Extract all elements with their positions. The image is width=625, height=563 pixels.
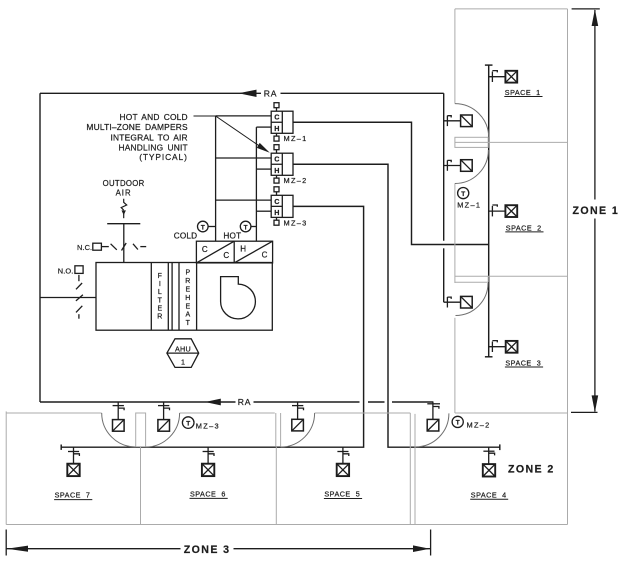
svg-text:SPACE 2: SPACE 2 — [506, 223, 542, 232]
svg-text:E: E — [157, 305, 162, 312]
svg-text:R: R — [185, 278, 190, 285]
diffuser space 6 — [202, 464, 214, 476]
svg-text:T: T — [456, 420, 460, 427]
duct RA bottom line — [40, 401, 433, 403]
svg-text:T: T — [201, 224, 205, 231]
duct zone 2 from MZ-2 — [293, 164, 500, 450]
svg-text:SPACE 5: SPACE 5 — [324, 490, 360, 499]
damper MZ-1 — [271, 103, 293, 141]
svg-text:H: H — [274, 124, 279, 133]
diffuser space 4 — [483, 464, 495, 476]
svg-text:T: T — [244, 224, 248, 231]
svg-text:INTEGRAL TO AIR: INTEGRAL TO AIR — [111, 132, 188, 142]
svg-text:C: C — [262, 251, 268, 260]
svg-text:C: C — [202, 245, 208, 254]
svg-text:T: T — [158, 297, 163, 304]
damper N.C. outdoor air — [93, 243, 146, 251]
thermostat T MZ-2 — [452, 416, 463, 427]
svg-text:C: C — [223, 251, 229, 260]
outdoor air intake line — [107, 223, 140, 225]
door arc space 1 — [455, 104, 489, 138]
thermostat T MZ-3 — [182, 417, 194, 429]
svg-text:N.C.: N.C. — [77, 243, 92, 252]
diffuser space 3 — [506, 341, 518, 353]
svg-text:E: E — [185, 303, 190, 310]
outdoor air flow arrow with break — [121, 199, 127, 218]
labels coil letters — [202, 245, 268, 260]
leader line — [194, 116, 263, 148]
svg-text:(TYPICAL): (TYPICAL) — [139, 152, 188, 162]
svg-text:P: P — [185, 270, 190, 277]
duct zone 3 from MZ-3 — [61, 206, 363, 450]
thermostat T cold deck — [198, 221, 216, 232]
duct RA vertical drop — [443, 93, 445, 302]
label FILTER — [157, 273, 162, 321]
register return corridor 2 — [461, 160, 473, 172]
duct mixed air line — [40, 297, 96, 299]
svg-text:N.O.: N.O. — [58, 266, 74, 275]
fan scroll — [221, 277, 256, 319]
svg-text:SPACE 4: SPACE 4 — [471, 490, 507, 499]
dimension ZONE 1 — [571, 9, 600, 413]
duct RA top line — [40, 92, 444, 94]
svg-text:T: T — [186, 320, 191, 327]
diffuser space 2 — [505, 205, 517, 217]
door arc space 3 — [456, 283, 489, 316]
register corridor bottom 3 — [292, 419, 304, 431]
door arc left double door — [102, 413, 136, 447]
svg-text:H: H — [240, 245, 246, 254]
svg-text:SPACE 3: SPACE 3 — [505, 358, 541, 367]
svg-text:H: H — [185, 295, 190, 302]
coil section hot/cold decks — [196, 241, 272, 263]
walls bottom rooms — [6, 411, 567, 524]
register return corridor 3 — [461, 296, 473, 308]
diffuser space 5 — [337, 464, 349, 476]
register corridor bottom 4 — [427, 419, 439, 431]
svg-text:RA: RA — [238, 397, 252, 407]
duct outdoor air vertical — [123, 224, 125, 263]
label PREHEAT — [185, 270, 190, 327]
AHU U1 casing — [96, 263, 272, 331]
diffuser space 1 — [505, 71, 517, 83]
svg-text:C: C — [274, 113, 279, 122]
svg-text:MZ–2: MZ–2 — [467, 420, 491, 429]
svg-text:RA: RA — [264, 89, 278, 99]
svg-text:ZONE 2: ZONE 2 — [508, 463, 555, 475]
svg-text:L: L — [158, 289, 162, 296]
register return corridor 1 — [461, 115, 473, 127]
damper MZ-3 — [271, 187, 293, 225]
svg-text:MZ–1: MZ–1 — [457, 200, 481, 209]
svg-text:C: C — [274, 155, 279, 164]
svg-text:OUTDOOR: OUTDOOR — [103, 179, 145, 188]
svg-text:MZ–1: MZ–1 — [284, 134, 308, 143]
svg-text:H: H — [274, 208, 279, 217]
svg-text:H: H — [274, 166, 279, 175]
wire left wall of control loop — [39, 93, 41, 402]
svg-text:F: F — [158, 273, 162, 280]
svg-text:AIR: AIR — [116, 188, 132, 197]
svg-text:AHU: AHU — [175, 344, 191, 353]
tag AHU 1 hexagon — [167, 339, 199, 368]
svg-text:R: R — [157, 314, 162, 321]
door arc space 2 — [455, 150, 489, 184]
duct hot deck supply — [256, 127, 271, 241]
svg-text:SPACE 1: SPACE 1 — [505, 88, 541, 97]
svg-text:I: I — [159, 281, 161, 288]
damper MZ-2 — [271, 145, 293, 183]
door arc space 5 — [281, 413, 315, 447]
svg-text:HOT AND COLD: HOT AND COLD — [120, 112, 188, 122]
svg-text:SPACE 7: SPACE 7 — [55, 491, 91, 500]
arrow RA top — [239, 90, 257, 97]
svg-text:1: 1 — [181, 357, 185, 366]
thermostat T hot deck — [240, 221, 256, 232]
dimension ZONE 3 — [6, 530, 430, 556]
duct zone 1 riser — [485, 65, 493, 357]
duct cold deck supply — [216, 116, 272, 241]
register corridor bottom 2 — [158, 420, 170, 432]
svg-text:COLD: COLD — [174, 231, 198, 240]
svg-text:HOT: HOT — [223, 231, 241, 240]
svg-text:A: A — [185, 312, 190, 319]
thermostat T MZ-1 — [458, 188, 469, 199]
svg-text:HANDLING UNIT: HANDLING UNIT — [118, 142, 187, 152]
diffuser space 7 — [67, 464, 79, 476]
svg-text:C: C — [274, 197, 279, 206]
svg-text:ZONE 1: ZONE 1 — [573, 205, 620, 217]
svg-text:MZ–3: MZ–3 — [196, 421, 220, 430]
svg-text:T: T — [186, 420, 190, 427]
arrow RA bottom — [205, 399, 221, 406]
svg-text:MZ–3: MZ–3 — [284, 218, 308, 227]
arrow leader — [257, 143, 270, 153]
walls zone 1 block — [455, 9, 568, 525]
damper N.O. return air — [75, 266, 83, 319]
duct zone 1 from MZ-1 — [293, 122, 489, 244]
svg-text:MZ–2: MZ–2 — [284, 176, 308, 185]
svg-text:E: E — [185, 287, 190, 294]
note text block — [86, 112, 188, 162]
door arc right double door — [146, 413, 180, 447]
svg-text:T: T — [461, 191, 465, 198]
svg-text:ZONE 3: ZONE 3 — [184, 544, 231, 556]
register corridor bottom 1 — [113, 420, 125, 432]
door arc zone 2 — [415, 413, 449, 447]
svg-text:MULTI–ZONE DAMPERS: MULTI–ZONE DAMPERS — [86, 122, 188, 132]
svg-text:SPACE 6: SPACE 6 — [190, 490, 226, 499]
